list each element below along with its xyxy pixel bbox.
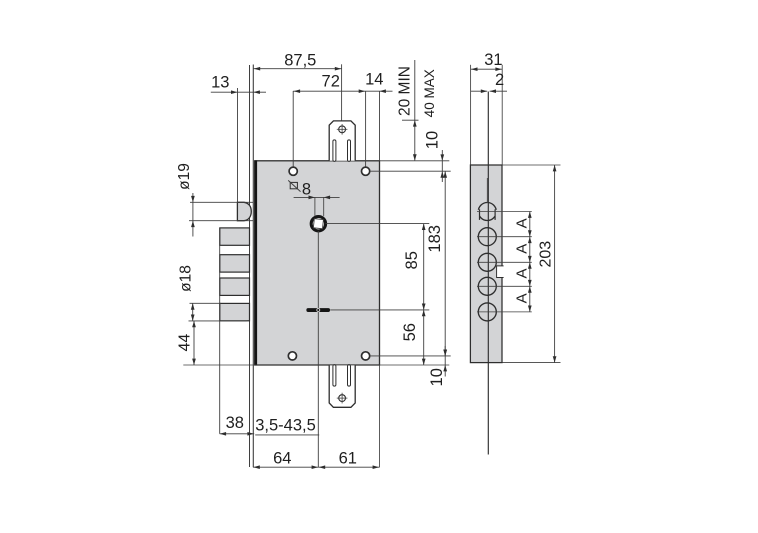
svg-text:183: 183 (426, 225, 444, 253)
screw hole top-right (362, 167, 370, 175)
bolt hole circle 4 (side view) (477, 277, 532, 295)
faceplate edge-on (front view) vertical lines (250, 65, 254, 468)
dimension 44 (177, 321, 247, 365)
screw hole top-left (289, 167, 297, 175)
svg-text:38: 38 (226, 414, 244, 432)
bolt hole circle 2 (side view) (477, 228, 532, 246)
chain dimension line A spacings (528, 212, 532, 312)
deadbolt 2 (220, 255, 250, 272)
deadbolt 3 (220, 278, 250, 295)
bottom tab screw with cross (337, 393, 348, 404)
double-bit keyhole slot (306, 308, 330, 312)
vertical centerline through spindle and keyhole (317, 231, 319, 467)
dimension 203 (503, 165, 561, 363)
dimension 56 (401, 310, 426, 365)
svg-text:A: A (513, 293, 530, 303)
dimension ø18 (deadbolts) (177, 265, 221, 321)
svg-text:ø19: ø19 (176, 163, 193, 190)
extension of body bottom edge (183, 364, 449, 366)
svg-text:2: 2 (495, 71, 504, 89)
svg-text:A: A (513, 244, 530, 254)
extension line at bottom hole axis (370, 355, 451, 357)
svg-text:3,5-43,5: 3,5-43,5 (255, 417, 316, 435)
dimension 87,5 (253, 52, 341, 121)
faceplate bar (edge view) (470, 165, 502, 363)
svg-text:56: 56 (401, 323, 419, 341)
top tab screw with cross (337, 124, 348, 135)
dimension 31 (471, 51, 503, 164)
bolt hole circle 5 (side view) (477, 303, 532, 321)
dimension 10 (top) (423, 131, 444, 182)
extension line at spindle axis (326, 223, 430, 225)
top fixing tab (329, 121, 355, 161)
extension of body top edge (380, 160, 450, 162)
centerline above top circle (486, 178, 488, 203)
bottom fixing tab (329, 365, 355, 407)
svg-text:203: 203 (538, 241, 555, 268)
dimension 72 (293, 72, 365, 166)
svg-text:44: 44 (177, 334, 194, 352)
deadbolt 4 (220, 303, 250, 320)
svg-text:87,5: 87,5 (284, 52, 316, 70)
lock body thick left edge (254, 160, 257, 365)
dimension 14 (365, 70, 392, 160)
label A 1 (513, 218, 530, 228)
svg-text:ø18: ø18 (177, 265, 194, 292)
bolt hole circle 3 (side view) (477, 253, 532, 271)
extension line at top hole axis (370, 170, 451, 172)
dimension 13 (211, 73, 266, 202)
dimension 38 (220, 414, 255, 436)
deadbolt 1 (220, 228, 250, 245)
dimension 2 (471, 71, 507, 93)
dimension 85 (403, 224, 426, 310)
door-edge plate thin line (487, 92, 489, 455)
svg-text:85: 85 (403, 251, 421, 269)
dimension 64 (253, 449, 319, 469)
svg-text:20 MIN: 20 MIN (396, 66, 413, 116)
svg-text:61: 61 (339, 449, 357, 467)
dimension 61 (318, 365, 379, 469)
svg-text:13: 13 (211, 73, 229, 91)
extension line at keyhole axis (330, 309, 429, 311)
top tab slots (333, 140, 351, 162)
svg-text:10: 10 (423, 131, 441, 149)
lock body plate (255, 161, 380, 365)
svg-text:72: 72 (322, 72, 340, 90)
dimension 20 MIN / 40 MAX (396, 60, 437, 161)
screw hole bottom-left (288, 352, 296, 360)
label A 2 (513, 244, 530, 254)
dimension ø19 (latch) (176, 163, 253, 236)
label A 3 (513, 268, 530, 278)
label A 4 (513, 293, 530, 303)
dimension 183 (426, 171, 447, 356)
svg-text:31: 31 (484, 51, 502, 69)
spindle hub (8mm square follower) (311, 217, 325, 231)
bottom tab slots (333, 365, 351, 387)
svg-text:A: A (513, 268, 530, 278)
svg-text:40 MAX: 40 MAX (422, 69, 437, 117)
deadbolt front face line / extension to 38 dim (219, 228, 221, 434)
svg-text:A: A (513, 218, 530, 228)
square 8 spindle callout (288, 180, 339, 216)
svg-text:64: 64 (273, 449, 291, 467)
screw hole bottom-right (362, 352, 370, 360)
latch bolt (D-shape) (237, 202, 251, 220)
svg-text:10: 10 (428, 368, 446, 386)
svg-text:14: 14 (365, 70, 383, 88)
label 3,5-43,5 (255, 417, 319, 435)
keyhole notch in bar edge (497, 266, 504, 278)
dimension 10 (bottom) (428, 346, 447, 386)
bolt hole circle 1 (side view) (477, 203, 532, 221)
